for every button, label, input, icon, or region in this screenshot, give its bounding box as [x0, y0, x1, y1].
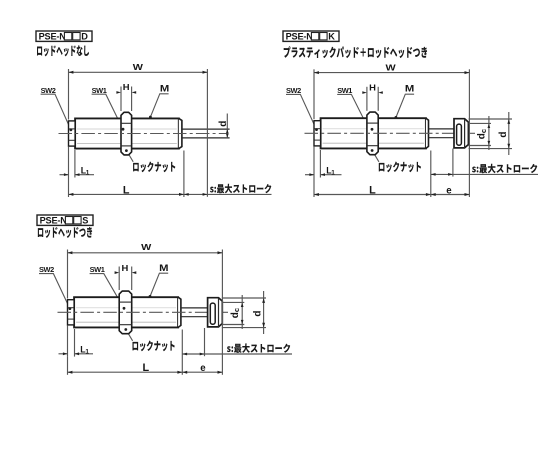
svg-text:SW2: SW2	[41, 86, 56, 95]
svg-text:dc: dc	[230, 308, 241, 318]
svg-text:e: e	[446, 185, 452, 196]
svg-text:dc: dc	[477, 129, 488, 139]
dimension H	[120, 87, 122, 112]
dimension d	[226, 114, 228, 139]
dimension W (2)	[313, 69, 315, 119]
absorber body	[75, 118, 179, 148]
dimension e	[431, 194, 470, 196]
svg-text:L: L	[123, 184, 130, 196]
diagram 3: subtitle rod-head-tsuki	[38, 227, 92, 238]
dimension L1	[68, 147, 70, 178]
piston rod	[182, 129, 230, 138]
svg-text:d: d	[498, 131, 509, 137]
diagram 3: model label box PSE-N..S	[37, 215, 93, 225]
label M + leader (3)	[159, 264, 168, 274]
dimension L	[68, 178, 70, 198]
svg-text:H: H	[369, 83, 376, 92]
svg-text:M: M	[160, 84, 169, 94]
label M + leader (2)	[405, 85, 414, 95]
svg-text:H: H	[121, 263, 128, 272]
dimension H (3)	[118, 267, 120, 291]
hex end SW2	[69, 121, 76, 146]
diagram 1: model label box PSE-N..D	[36, 31, 92, 41]
dimension d (3)	[222, 297, 266, 299]
absorber body	[74, 297, 178, 327]
dimension s: max stroke (2)	[430, 151, 432, 198]
svg-text:SW2: SW2	[39, 265, 54, 274]
lock nut label + leader (2)	[371, 149, 374, 152]
label M + leader	[160, 84, 169, 94]
dimension H (2)	[366, 87, 368, 111]
dimension L (2)	[313, 178, 315, 198]
svg-text:L: L	[142, 362, 149, 374]
svg-text:d: d	[253, 310, 264, 316]
piston rod	[429, 129, 454, 138]
rod head with plastic pad (3)	[208, 298, 223, 327]
absorber body	[321, 118, 426, 148]
hex end SW2	[68, 300, 75, 325]
dimension dc (3)	[222, 301, 244, 303]
svg-text:PSE-N: PSE-N	[286, 32, 314, 42]
svg-text:PSE-N: PSE-N	[39, 32, 67, 42]
svg-text:PSE-N: PSE-N	[40, 216, 68, 226]
diagram 1: subtitle rod-head-nashi	[37, 45, 89, 56]
dimension W (3)	[67, 250, 69, 299]
svg-text:d: d	[218, 121, 229, 127]
svg-text:W: W	[141, 243, 152, 253]
svg-text:1: 1	[86, 170, 90, 177]
thread lines	[323, 128, 424, 130]
lock nut	[121, 112, 132, 155]
centerline	[59, 133, 229, 135]
lock nut	[367, 112, 378, 155]
lock nut label + leader	[125, 149, 128, 152]
centerline	[305, 132, 476, 134]
piston rod	[181, 308, 207, 317]
leader lines SW1/SW2/M/locknut (under part)	[92, 94, 123, 128]
svg-text:SW1: SW1	[337, 86, 352, 95]
dimension dc	[469, 122, 491, 124]
svg-text:1: 1	[331, 170, 335, 177]
svg-text:M: M	[405, 85, 414, 95]
centerline	[58, 311, 229, 313]
svg-text:D: D	[81, 32, 88, 42]
dimension d (head dia)	[469, 118, 512, 120]
svg-text:SW1: SW1	[92, 86, 107, 95]
leader lines SW1/SW2/M/locknut (under part) (2)	[337, 94, 368, 128]
hex end SW2	[314, 121, 321, 146]
rod head with plastic pad	[454, 119, 468, 148]
svg-text:1: 1	[85, 349, 89, 356]
dimension L1 (2)	[313, 146, 315, 177]
svg-text:SW1: SW1	[90, 265, 105, 274]
leader lines SW1/SW2/M/locknut (under part) (3)	[90, 274, 124, 308]
dimension s: max stroke	[184, 193, 208, 195]
svg-text:K: K	[328, 32, 335, 42]
dimension W	[68, 69, 70, 120]
lock nut label + leader (3)	[124, 328, 127, 331]
dimension L (3)	[67, 357, 69, 375]
diagram 2: subtitle plastic pad + rod head	[284, 46, 427, 58]
svg-text:S: S	[82, 216, 88, 226]
thread lines	[76, 307, 176, 309]
svg-text:SW2: SW2	[286, 86, 301, 95]
lock nut	[119, 291, 132, 334]
svg-text:W: W	[133, 63, 144, 73]
svg-text:e: e	[200, 363, 206, 374]
dimension s: max stroke (3)	[181, 330, 183, 375]
svg-text:H: H	[123, 83, 130, 92]
thread lines	[77, 128, 177, 130]
dimension e (3)	[182, 371, 222, 373]
svg-text:W: W	[386, 63, 397, 73]
svg-text:M: M	[159, 264, 168, 274]
diagram 2: model label box PSE-N..K	[283, 31, 339, 41]
dimension L1 (3)	[67, 325, 69, 356]
svg-text:L: L	[369, 184, 376, 196]
